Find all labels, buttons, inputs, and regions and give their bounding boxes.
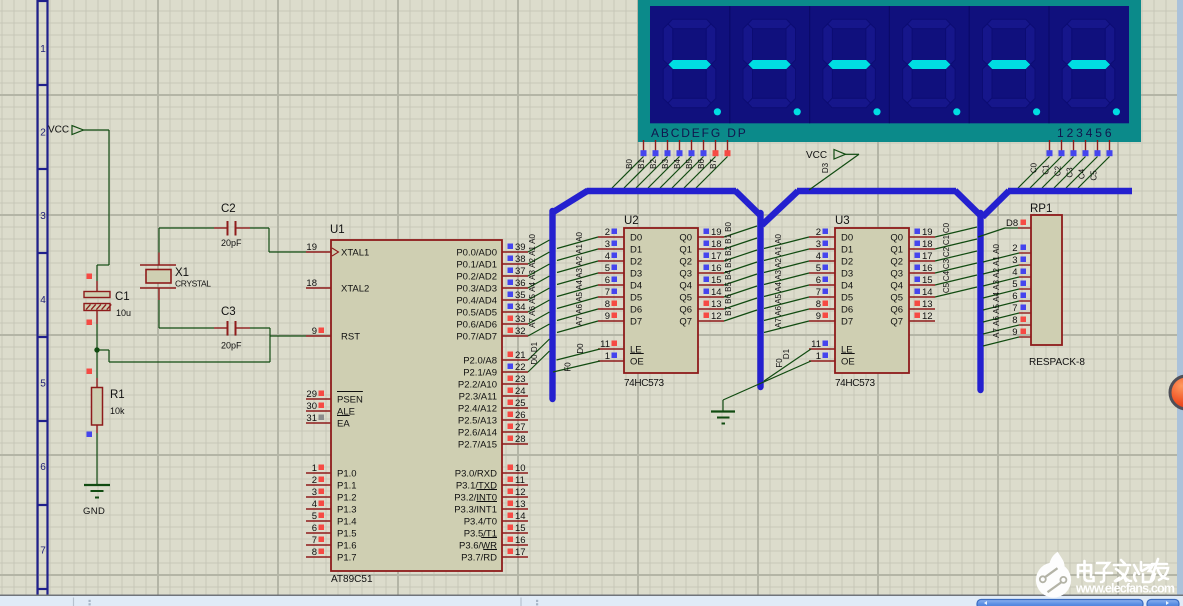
- svg-text:A2: A2: [992, 268, 1001, 278]
- svg-text:2: 2: [312, 475, 317, 486]
- svg-text:A4: A4: [992, 292, 1001, 302]
- svg-text:14: 14: [515, 511, 526, 522]
- U3 pin 6 D4: [809, 275, 853, 291]
- svg-text:5: 5: [312, 511, 317, 522]
- svg-text:P1.1: P1.1: [337, 480, 357, 491]
- svg-text:3: 3: [816, 239, 821, 250]
- svg-text:VCC: VCC: [806, 150, 827, 161]
- wire U2 Q0 to bus net B0: [724, 222, 757, 237]
- microcontroller U1 label: [330, 224, 345, 236]
- RP1 pin 2 / wire net A0: [983, 243, 1031, 262]
- RP1 pin 3 / wire net A1: [983, 255, 1031, 274]
- svg-text:2: 2: [816, 227, 821, 238]
- horizontal scrollbar thumb: [977, 600, 1179, 606]
- svg-text:35: 35: [515, 290, 526, 301]
- svg-text:7: 7: [1012, 303, 1017, 314]
- U1 pin 15 P3.5/T1: [464, 523, 528, 539]
- svg-text:74HC573: 74HC573: [624, 378, 664, 389]
- svg-text:30: 30: [306, 401, 317, 412]
- U1 pin 2 P1.1: [306, 475, 357, 491]
- svg-text:Q2: Q2: [890, 256, 903, 267]
- svg-text:Q6: Q6: [890, 304, 903, 315]
- U3 pin 17 Q2: [890, 251, 935, 267]
- svg-text:RP1: RP1: [1030, 203, 1052, 215]
- svg-text:B0: B0: [625, 159, 634, 169]
- wire bus to U2 LE net D0: [557, 343, 601, 360]
- U3 pin 2 D0: [809, 227, 853, 243]
- wire bus to U2 D2 net A2: [557, 256, 598, 273]
- node junction C1/R1/RST: [94, 347, 99, 352]
- wire junction to RST net: [97, 328, 306, 362]
- wire bus to U2 D0 net A0: [557, 232, 598, 249]
- svg-text:U2: U2: [624, 215, 639, 227]
- svg-text:A1: A1: [992, 256, 1001, 266]
- svg-text:D3: D3: [841, 268, 853, 279]
- wire bus to U2 D7 net A7: [557, 316, 598, 333]
- svg-text:20pF: 20pF: [221, 238, 242, 248]
- svg-text:C5: C5: [942, 282, 951, 293]
- U3 pin 5 D3: [809, 263, 853, 279]
- svg-text:2: 2: [40, 128, 46, 139]
- svg-text:A7: A7: [528, 318, 537, 328]
- svg-text:D1: D1: [630, 244, 642, 255]
- svg-text:7: 7: [605, 287, 610, 298]
- digit 5 segments: [983, 19, 1036, 108]
- svg-text:C4: C4: [942, 270, 951, 281]
- svg-text:OE: OE: [630, 356, 644, 367]
- svg-text:Q3: Q3: [890, 268, 903, 279]
- digit 6 segments: [1062, 19, 1115, 108]
- U2 pin 5 D3: [598, 263, 642, 279]
- wire bus to U3 D2 net A2: [764, 258, 809, 273]
- U3 pin 3 D1: [809, 239, 853, 255]
- svg-text:C1: C1: [1042, 164, 1051, 175]
- U1 pin 25 P2.4/A12: [458, 398, 528, 414]
- U3 pin 16 Q3: [890, 263, 935, 279]
- svg-text:X1: X1: [175, 267, 189, 279]
- svg-text:U1: U1: [330, 224, 345, 236]
- wire U1 P0.4 to bus net A4: [528, 282, 550, 300]
- U1 pin 28 P2.7/A15: [458, 434, 528, 450]
- svg-text:A3: A3: [575, 268, 584, 278]
- wire U1 P0.2 to bus net A2: [528, 258, 550, 276]
- svg-text:8: 8: [312, 547, 317, 558]
- svg-text:C3: C3: [942, 258, 951, 269]
- U1 pin 24 P2.3/A11: [459, 386, 528, 402]
- U1 pin 1 P1.0: [306, 463, 357, 479]
- svg-text:D8: D8: [1006, 218, 1018, 229]
- svg-text:16: 16: [515, 535, 526, 546]
- U2 pin 11 LE: [598, 339, 642, 355]
- svg-text:A2: A2: [575, 256, 584, 266]
- svg-text:A3: A3: [992, 280, 1001, 290]
- orange ball right edge: [1170, 376, 1183, 409]
- svg-text:A7: A7: [992, 328, 1001, 338]
- wire U3 Q0 to bus net C0: [935, 222, 977, 237]
- wire U2 Q5 to bus net B5: [724, 282, 757, 297]
- svg-text:20pF: 20pF: [221, 341, 242, 351]
- svg-text:A1: A1: [575, 244, 584, 254]
- display digit pin 1 / wire net C0: [1018, 140, 1053, 188]
- U3 pin 12 Q7: [890, 311, 935, 327]
- capacitor C3 20pF: [159, 306, 270, 351]
- svg-text:P0.7/AD7: P0.7/AD7: [456, 331, 497, 342]
- U1 pin 13 P3.3/INT1: [454, 499, 528, 515]
- svg-text:D3: D3: [630, 268, 642, 279]
- svg-text:C2: C2: [221, 203, 236, 215]
- capacitor C2 20pF: [159, 203, 269, 248]
- wire VCC to bus net D3: [809, 154, 859, 190]
- wire U2 Q2 to bus net B2: [724, 246, 757, 261]
- svg-text:C2: C2: [942, 246, 951, 257]
- svg-text:6: 6: [1012, 291, 1017, 302]
- svg-text:Q0: Q0: [890, 232, 903, 243]
- U1 pin 22 P2.1/A9: [463, 362, 528, 378]
- U1 pin 5 P1.4: [306, 511, 357, 527]
- wire U3 Q3 to bus net C3: [935, 258, 977, 273]
- svg-text:P2.3/A11: P2.3/A11: [459, 391, 497, 402]
- U2 pin 15 Q4: [679, 275, 724, 291]
- svg-text:P3.7/RD: P3.7/RD: [461, 552, 497, 563]
- svg-text:6: 6: [605, 275, 610, 286]
- U1 pin 30 ALE: [306, 401, 355, 417]
- svg-text:B0: B0: [724, 222, 733, 232]
- svg-text:16: 16: [922, 263, 933, 274]
- svg-text:P1.5: P1.5: [337, 528, 357, 539]
- RP1 pin 1 common / wire net D8: [978, 218, 1031, 237]
- wire U1 P0.6 to bus net A6: [528, 306, 550, 324]
- svg-text:U3: U3: [835, 215, 850, 227]
- svg-text:B5: B5: [685, 159, 694, 169]
- svg-text:39: 39: [515, 242, 526, 253]
- power flag VCC right: [806, 150, 846, 162]
- U1 pin 29 PSEN: [306, 389, 363, 405]
- digit 2 segments: [743, 19, 796, 108]
- svg-text:D3: D3: [821, 162, 830, 173]
- svg-text:P0.5/AD5: P0.5/AD5: [456, 307, 497, 318]
- svg-text:B1: B1: [724, 234, 733, 244]
- svg-text:P2.6/A14: P2.6/A14: [458, 427, 497, 438]
- U1 pin 11 P3.1/TXD: [456, 475, 528, 491]
- svg-text:4: 4: [40, 295, 46, 306]
- U3 pin 19 Q0: [890, 227, 935, 243]
- svg-text:A3: A3: [774, 270, 783, 280]
- U1 pin 32 P0.7/AD7: [456, 326, 528, 342]
- svg-text:18: 18: [306, 278, 317, 289]
- svg-text:A5: A5: [528, 294, 537, 304]
- svg-text:XTAL2: XTAL2: [341, 283, 369, 294]
- svg-text:A6: A6: [774, 306, 783, 316]
- display segment pin E / wire net B4: [660, 140, 695, 188]
- U3 pin 18 Q1: [890, 239, 935, 255]
- U1 pin 36 P0.3/AD3: [456, 278, 528, 294]
- wire bus to U2 D4 net A4: [557, 280, 598, 297]
- svg-text:28: 28: [515, 434, 526, 445]
- svg-text:B3: B3: [661, 159, 670, 169]
- svg-text:33: 33: [515, 314, 526, 325]
- svg-text:B2: B2: [649, 159, 658, 169]
- svg-text:D0: D0: [841, 232, 853, 243]
- display segment pin A / wire net B0: [612, 140, 647, 188]
- wire U2 Q6 to bus net B6: [724, 294, 757, 309]
- svg-text:6: 6: [816, 275, 821, 286]
- U2 pin 12 Q7: [679, 311, 724, 327]
- wire U1 P0.5 to bus net A5: [528, 294, 550, 312]
- watermark text: [1075, 559, 1175, 596]
- svg-text:B3: B3: [724, 258, 733, 268]
- svg-text:A5: A5: [774, 294, 783, 304]
- svg-text:8: 8: [816, 299, 821, 310]
- svg-text:CRYSTAL: CRYSTAL: [175, 279, 211, 289]
- svg-text:24: 24: [515, 386, 526, 397]
- svg-text:C4: C4: [1078, 168, 1087, 179]
- svg-text:Q7: Q7: [679, 316, 692, 327]
- U1 pin 26 P2.5/A13: [458, 410, 528, 426]
- svg-text:31: 31: [306, 413, 317, 424]
- svg-text:6: 6: [40, 462, 46, 473]
- right scrollbar sliver: [1177, 0, 1183, 596]
- svg-text:18: 18: [922, 239, 933, 250]
- svg-text:P3.3/INT1: P3.3/INT1: [454, 504, 497, 515]
- svg-text:D1: D1: [782, 348, 791, 359]
- svg-text:17: 17: [711, 251, 722, 262]
- svg-text:D4: D4: [841, 280, 853, 291]
- svg-text:16: 16: [711, 263, 722, 274]
- svg-text:C5: C5: [1090, 170, 1099, 181]
- svg-text:D7: D7: [630, 316, 642, 327]
- svg-text:D5: D5: [841, 292, 853, 303]
- svg-text:P2.5/A13: P2.5/A13: [458, 415, 497, 426]
- wire bus to U3 D1 net A1: [764, 246, 809, 261]
- svg-text:P3.0/RXD: P3.0/RXD: [455, 468, 497, 479]
- svg-text:14: 14: [922, 287, 933, 298]
- wire bus to U3 D6 net A6: [764, 306, 809, 321]
- U3 pin 14 Q5: [890, 287, 935, 303]
- U3 pin 7 D5: [809, 287, 853, 303]
- svg-text:Q4: Q4: [679, 280, 692, 291]
- svg-text:B5: B5: [724, 282, 733, 292]
- svg-text:32: 32: [515, 326, 526, 337]
- svg-text:C1: C1: [115, 291, 130, 303]
- U3 pin 1 OE: [809, 351, 855, 367]
- wire U2 Q3 to bus net B3: [724, 258, 757, 273]
- digit 4 lit decimal point: [953, 108, 960, 115]
- svg-text:Q5: Q5: [890, 292, 903, 303]
- svg-text:D0: D0: [576, 343, 585, 354]
- display segment pin names label ABCDEFG DP: [651, 126, 747, 140]
- svg-text:4: 4: [1012, 267, 1017, 278]
- U3 pin 11 LE: [809, 339, 853, 355]
- svg-text:D1: D1: [530, 341, 539, 352]
- RP1 pin 5 / wire net A3: [983, 279, 1031, 298]
- U2 pin 9 D7: [598, 311, 642, 327]
- svg-text:37: 37: [515, 266, 526, 277]
- svg-text:A5: A5: [992, 304, 1001, 314]
- svg-text:11: 11: [811, 339, 821, 350]
- wire bus to U3 D4 net A4: [764, 282, 809, 297]
- svg-text:D1: D1: [841, 244, 853, 255]
- RP1 pin 7 / wire net A5: [983, 303, 1031, 322]
- svg-text:25: 25: [515, 398, 526, 409]
- svg-text:P1.6: P1.6: [337, 540, 357, 551]
- crystal X1: [140, 228, 211, 328]
- svg-text:3: 3: [312, 487, 317, 498]
- wire bus to U2 D1 net A1: [557, 244, 598, 261]
- ground for U3 OE: [711, 412, 735, 424]
- svg-text:3: 3: [605, 239, 610, 250]
- svg-text:12: 12: [515, 487, 526, 498]
- svg-text:F0: F0: [564, 362, 573, 372]
- svg-text:P0.2/AD2: P0.2/AD2: [456, 271, 497, 282]
- wire bus to U3 D5 net A5: [764, 294, 809, 309]
- svg-text:D0: D0: [630, 232, 642, 243]
- svg-text:8: 8: [1012, 315, 1017, 326]
- wire bus to U2 D6 net A6: [557, 304, 598, 321]
- svg-text:9: 9: [816, 311, 821, 322]
- svg-text:11: 11: [515, 475, 525, 486]
- wire bus to U3 D7 net A7: [764, 318, 809, 333]
- svg-text:B4: B4: [673, 159, 682, 169]
- svg-text:XTAL1: XTAL1: [341, 247, 369, 258]
- display segment pin B / wire net B1: [624, 140, 659, 188]
- bus backbone: [553, 191, 1133, 400]
- display segment pin D / wire net B3: [648, 140, 683, 188]
- U1 pin 3 P1.2: [306, 487, 357, 503]
- wire bus to U3 LE net D1: [764, 348, 811, 381]
- wire U3 Q2 to bus net C2: [935, 246, 977, 261]
- svg-text:PSEN: PSEN: [337, 394, 363, 405]
- svg-text:AT89C51: AT89C51: [331, 574, 373, 585]
- svg-text:9: 9: [312, 326, 317, 337]
- latch U2 label: [624, 215, 639, 227]
- svg-text:P0.6/AD6: P0.6/AD6: [456, 319, 497, 330]
- svg-text:123456: 123456: [1057, 126, 1114, 140]
- svg-text:R1: R1: [110, 389, 125, 401]
- display digit pin names label 123456: [1057, 126, 1114, 140]
- svg-text:12: 12: [922, 311, 933, 322]
- svg-text:P2.2/A10: P2.2/A10: [458, 379, 497, 390]
- svg-text:5: 5: [40, 378, 46, 389]
- RP1 pin 9 / wire net A7: [983, 327, 1031, 346]
- wire U1 P0.0 to bus net A0: [528, 234, 550, 252]
- svg-text:C3: C3: [1066, 167, 1075, 178]
- display digit pin 4 / wire net C3: [1054, 140, 1089, 188]
- svg-text:17: 17: [922, 251, 933, 262]
- svg-text:Q0: Q0: [679, 232, 692, 243]
- U2 pin 8 D6: [598, 299, 642, 315]
- display 6-digit 7SEG: [638, 0, 1141, 142]
- latch U3 74HC573 body: [835, 228, 909, 389]
- U1 pin 6 P1.5: [306, 523, 357, 539]
- display segment pin G / wire net B6: [684, 140, 719, 188]
- RP1 pin 6 / wire net A4: [983, 291, 1031, 310]
- svg-text:A1: A1: [774, 246, 783, 256]
- U1 pin 9 RST: [306, 326, 360, 342]
- svg-text:7: 7: [40, 546, 46, 557]
- U1 pin 21 P2.0/A8: [463, 350, 528, 366]
- svg-text:A0: A0: [575, 232, 584, 242]
- svg-text:A4: A4: [575, 280, 584, 290]
- svg-text:15: 15: [711, 275, 722, 286]
- svg-text:6: 6: [312, 523, 317, 534]
- svg-text:27: 27: [515, 422, 526, 433]
- svg-text:9: 9: [1012, 327, 1017, 338]
- resistor pack RP1 label: [1030, 203, 1052, 215]
- svg-text:C3: C3: [221, 306, 236, 318]
- svg-text:14: 14: [711, 287, 722, 298]
- svg-text:B1: B1: [637, 159, 646, 169]
- svg-text:9: 9: [605, 311, 610, 322]
- wire U2 Q1 to bus net B1: [724, 234, 757, 249]
- svg-text:5: 5: [816, 263, 821, 274]
- U1 pin 34 P0.5/AD5: [456, 302, 528, 318]
- U2 pin 18 Q1: [679, 239, 724, 255]
- U1 pin 12 P3.2/INT0: [454, 487, 528, 503]
- U1 pin 37 P0.2/AD2: [456, 266, 528, 282]
- wire bus to U3 D0 net A0: [764, 234, 809, 249]
- svg-text:Q4: Q4: [890, 280, 903, 291]
- wire C1 to junction: [87, 311, 98, 351]
- wire bus to U2 D5 net A5: [557, 292, 598, 309]
- svg-text:D5: D5: [630, 292, 642, 303]
- digit 6 lit decimal point: [1113, 108, 1120, 115]
- ground GND: [83, 485, 110, 517]
- svg-text:8: 8: [605, 299, 610, 310]
- svg-text:13: 13: [922, 299, 933, 310]
- wire U3 Q1 to bus net C1: [935, 234, 977, 249]
- svg-text:A1: A1: [528, 246, 537, 256]
- svg-text:1: 1: [605, 351, 610, 362]
- svg-text:4: 4: [816, 251, 821, 262]
- wire U1 P2.0 to bus net D0: [528, 339, 550, 365]
- svg-text:13: 13: [515, 499, 526, 510]
- svg-text:Q1: Q1: [679, 244, 692, 255]
- U3 pin 13 Q6: [890, 299, 935, 315]
- U1 pin 23 P2.2/A10: [458, 374, 528, 390]
- digit 1 lit segment G: [669, 60, 712, 69]
- display digit pin 6 / wire net C5: [1078, 140, 1113, 188]
- wire U1 P0.1 to bus net A1: [528, 246, 550, 264]
- svg-text:4: 4: [312, 499, 317, 510]
- U2 pin 19 Q0: [679, 227, 724, 243]
- svg-text:P1.3: P1.3: [337, 504, 357, 515]
- svg-text:1: 1: [816, 351, 821, 362]
- svg-text:B6: B6: [724, 294, 733, 304]
- display segment pin DP / wire net B7: [696, 140, 731, 188]
- svg-text:EA: EA: [337, 418, 350, 429]
- power flag VCC left: [48, 125, 84, 136]
- svg-text:Q6: Q6: [679, 304, 692, 315]
- svg-text:10k: 10k: [110, 406, 125, 416]
- U1 pin 39 P0.0/AD0: [456, 242, 528, 258]
- U2 pin 13 Q6: [679, 299, 724, 315]
- wire C2 to XTAL1: [269, 228, 306, 252]
- svg-text:P2.1/A9: P2.1/A9: [463, 367, 497, 378]
- svg-text:4: 4: [605, 251, 610, 262]
- svg-text:7: 7: [312, 535, 317, 546]
- U2 pin 14 Q5: [679, 287, 724, 303]
- svg-text:P2.0/A8: P2.0/A8: [463, 355, 497, 366]
- wire bus to U2 D3 net A3: [557, 268, 598, 285]
- U1 pin 38 P0.1/AD1: [456, 254, 528, 270]
- RP1 RESPACK-8 body: [1029, 215, 1085, 368]
- display digit pin 5 / wire net C4: [1066, 140, 1101, 188]
- svg-text:www.elecfans.com: www.elecfans.com: [1075, 582, 1175, 596]
- digit 2 lit segment G: [748, 60, 791, 69]
- U1 pin 27 P2.6/A14: [458, 422, 528, 438]
- svg-text:C0: C0: [1030, 162, 1039, 173]
- svg-text:D4: D4: [630, 280, 642, 291]
